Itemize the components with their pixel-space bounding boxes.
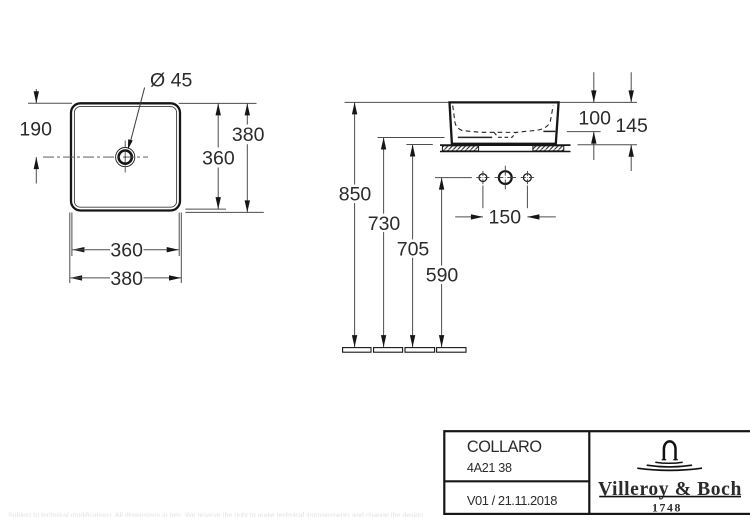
svg-text:150: 150 [489, 207, 522, 229]
svg-text:145: 145 [615, 115, 648, 137]
svg-text:COLLARO: COLLARO [467, 438, 542, 456]
svg-text:850: 850 [339, 184, 372, 206]
svg-text:590: 590 [426, 265, 459, 287]
svg-text:1748: 1748 [652, 500, 682, 514]
svg-text:730: 730 [368, 213, 401, 235]
svg-text:380: 380 [110, 268, 143, 290]
svg-text:380: 380 [232, 124, 265, 146]
svg-text:Ø 45: Ø 45 [150, 69, 192, 91]
svg-text:100: 100 [578, 107, 611, 129]
svg-text:V01 / 21.11.2018: V01 / 21.11.2018 [467, 493, 557, 508]
svg-text:360: 360 [202, 147, 235, 169]
svg-text:360: 360 [110, 240, 143, 262]
svg-text:Subject to technical modificat: Subject to technical modifications. All … [8, 513, 425, 517]
svg-text:190: 190 [19, 118, 52, 140]
svg-text:4A21 38: 4A21 38 [467, 461, 512, 475]
svg-text:705: 705 [397, 239, 430, 261]
